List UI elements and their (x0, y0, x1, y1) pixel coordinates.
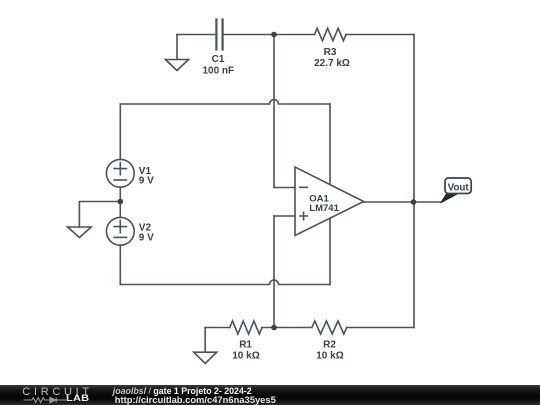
op-amp inverting - symbol (300, 186, 307, 188)
op-amp non-inverting + symbol (300, 212, 307, 219)
svg-text:9 V: 9 V (139, 176, 154, 187)
wire R2 to right rail (347, 327, 414, 329)
svg-text:LM741: LM741 (309, 203, 339, 214)
wire right rail vertical (feedback/output rail) (413, 35, 415, 328)
junction node: output / right rail (411, 199, 417, 205)
flag Vout box (445, 178, 471, 194)
wire V1 top lead (119, 104, 121, 159)
wire bottom return rail to op-amp V- (hop over x=274) (120, 280, 330, 285)
wire op-amp V- pin riser (329, 219, 331, 285)
svg-text:22.7 kΩ: 22.7 kΩ (314, 58, 350, 69)
wire non-inverting input down to R1/R2 node (273, 216, 275, 328)
resistor R3 (315, 28, 347, 40)
wire op-amp V+ pin drop (329, 104, 331, 184)
wire to inverting input (274, 187, 295, 189)
svg-text:100 nF: 100 nF (202, 66, 234, 77)
ground tap wire from node between sources (79, 202, 120, 228)
wire mid rail V1 to op-amp V+ (hop over x=274) (120, 100, 330, 105)
credit text (113, 386, 252, 396)
junction node: R1 / R2 / non-inverting (271, 325, 277, 331)
svg-text:R3: R3 (324, 47, 337, 58)
ground GND1 (top left, C1 return) (165, 35, 188, 71)
svg-text:Vout: Vout (448, 183, 470, 194)
wire V1 minus to V2 plus (119, 187, 121, 217)
voltage source V1 (106, 159, 134, 187)
wire V2 bottom lead (119, 245, 121, 284)
CircuitLab logo wordmark LAB (66, 393, 89, 404)
CircuitLab logo wordmark CIRCUIT (22, 386, 93, 398)
wire to non-inverting input (274, 215, 295, 217)
wire op-amp output (364, 201, 442, 203)
capacitor C1 (216, 20, 222, 50)
wire inverting feedback vertical (273, 35, 275, 188)
credit url line (115, 394, 276, 405)
junction node: C1 / R3 / feedback (271, 32, 277, 38)
svg-text:10 kΩ: 10 kΩ (232, 350, 259, 361)
op-amp OA1 triangle (295, 167, 364, 236)
footer bar (0, 385, 540, 405)
voltage source V2 (106, 217, 134, 245)
wire C1 right plate to R3 (224, 34, 315, 36)
junction node: V1- / V2+ / ground (118, 199, 124, 205)
svg-text:C1: C1 (212, 54, 225, 65)
svg-text:R2: R2 (323, 340, 336, 351)
CircuitLab logo doodle (resistor + diode) (23, 396, 68, 404)
wire R3 to right rail (346, 34, 414, 36)
resistor R1 (230, 321, 262, 334)
wire top rail: ground to C1 left plate (177, 34, 215, 36)
flag Vout pointer (441, 194, 458, 203)
ground GND3 (bottom, R1 return) (194, 328, 217, 364)
svg-text:R1: R1 (239, 340, 252, 351)
svg-text:9 V: 9 V (139, 232, 154, 243)
wire R1 to R2 (262, 327, 312, 329)
svg-text:10 kΩ: 10 kΩ (316, 350, 343, 361)
ground GND2 (between V1 and V2) (68, 227, 92, 238)
wire bottom rail left stub (ground to R1) (205, 327, 230, 329)
resistor R2 (312, 321, 347, 334)
